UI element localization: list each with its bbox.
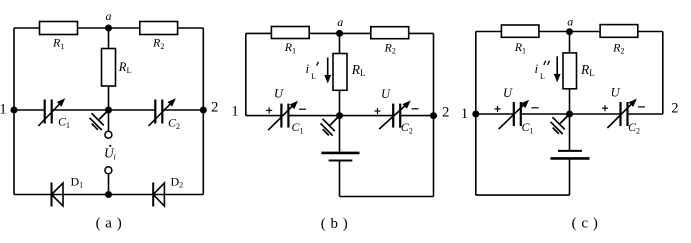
svg-text:1: 1 <box>231 103 238 119</box>
svg-text:R2: R2 <box>152 36 164 51</box>
svg-text:a: a <box>567 15 573 29</box>
svg-text:( c ): ( c ) <box>572 216 599 232</box>
svg-text:R1: R1 <box>514 40 526 55</box>
svg-text:RL: RL <box>118 60 132 75</box>
svg-text:U: U <box>611 85 621 99</box>
svg-text:U: U <box>274 86 284 100</box>
svg-text:a: a <box>106 9 112 23</box>
svg-text:C1: C1 <box>522 120 534 135</box>
svg-text:D2: D2 <box>171 174 184 189</box>
svg-text:R2: R2 <box>384 40 396 55</box>
svg-text:C1: C1 <box>58 115 70 130</box>
svg-text:D1: D1 <box>71 174 84 189</box>
svg-text:R1: R1 <box>284 40 296 55</box>
svg-text:( a ): ( a ) <box>96 216 123 232</box>
svg-text:1: 1 <box>461 106 468 122</box>
svg-text:L: L <box>540 72 545 81</box>
svg-text:2: 2 <box>442 104 449 120</box>
svg-text:U: U <box>381 87 391 101</box>
svg-text:C2: C2 <box>168 116 180 131</box>
svg-text:C2: C2 <box>628 120 640 135</box>
svg-text:RL: RL <box>580 62 595 78</box>
svg-text:R1: R1 <box>52 36 64 51</box>
svg-text:i: i <box>306 61 310 76</box>
svg-text:( b ): ( b ) <box>321 216 349 232</box>
svg-text:a: a <box>337 15 343 29</box>
svg-text:1: 1 <box>0 101 7 117</box>
svg-text:RL: RL <box>351 62 366 78</box>
svg-text:i: i <box>114 153 116 162</box>
svg-text:R2: R2 <box>612 40 624 55</box>
svg-text:U: U <box>503 86 513 100</box>
svg-text:2: 2 <box>671 100 678 116</box>
svg-text:C2: C2 <box>401 120 413 135</box>
svg-text:L: L <box>311 72 316 81</box>
svg-text:2: 2 <box>211 99 218 115</box>
svg-text:i: i <box>535 61 539 76</box>
svg-text:C1: C1 <box>292 120 304 135</box>
